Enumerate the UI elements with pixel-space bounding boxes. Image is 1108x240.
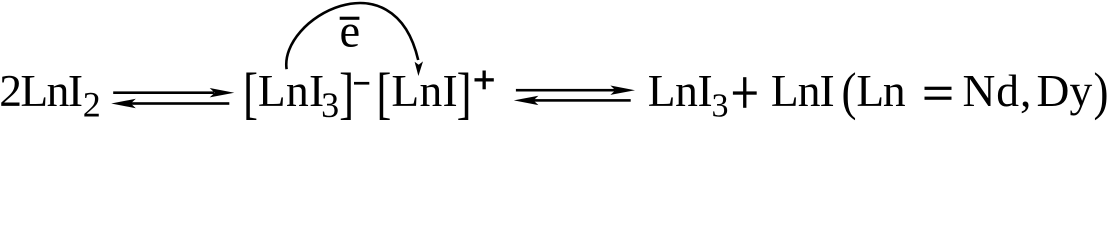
svg-text:2: 2 [83, 84, 101, 124]
svg-text:3: 3 [712, 87, 729, 124]
svg-text:e: e [339, 6, 360, 57]
svg-text:LnI: LnI [258, 65, 324, 116]
svg-text:LnI: LnI [648, 65, 713, 116]
svg-text:3: 3 [321, 85, 339, 125]
svg-text:Nd,: Nd, [963, 65, 1032, 116]
svg-text:]: ] [339, 63, 354, 126]
svg-text:Ln: Ln [856, 65, 906, 116]
svg-text:): ) [1094, 62, 1108, 121]
svg-text:[: [ [243, 63, 258, 126]
svg-text:(: ( [842, 62, 857, 121]
svg-text:[: [ [376, 63, 391, 126]
svg-text:Dy: Dy [1037, 65, 1093, 116]
svg-text:]: ] [457, 63, 472, 126]
svg-text:2LnI: 2LnI [0, 65, 83, 116]
svg-text:LnI: LnI [771, 65, 835, 116]
svg-text:LnI: LnI [391, 65, 457, 116]
